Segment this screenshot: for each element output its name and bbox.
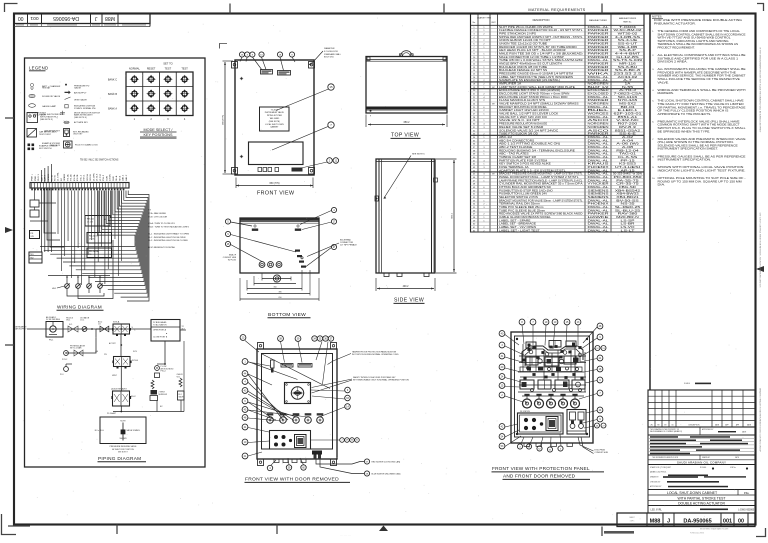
svg-text:INSTRUMENT VALVE: INSTRUMENT VALVE — [265, 111, 285, 114]
svg-text:TB-302 / MLC 302 SWITCH ACTION: TB-302 / MLC 302 SWITCH ACTIONS — [80, 159, 119, 162]
svg-text:SL-2 : INDICATING LIGHT PULSE: SL-2 : INDICATING LIGHT PULSE OPEN — [148, 236, 186, 239]
contact row switches — [65, 277, 103, 293]
svg-text:PWR -: PWR - — [35, 174, 37, 181]
svg-text:AIR SUPPLY: AIR SUPPLY — [74, 91, 87, 94]
svg-text:MODE SELECT /: MODE SELECT / — [144, 128, 174, 132]
svg-text:HS-B : TURN TO TEST INDICATION: HS-B : TURN TO TEST INDICATION LIGHTS — [148, 226, 190, 229]
svg-text:FRONT VIEW WITH PROTECTION: FRONT VIEW WITH PROTECTION PANEL — [492, 466, 590, 471]
front view datum mark — [220, 44, 228, 49]
title text rows — [648, 490, 755, 506]
protection panel caption — [492, 466, 605, 479]
wiring left components — [30, 188, 64, 247]
svg-text:DA-950065: DA-950065 — [683, 518, 711, 524]
svg-text:QUANTITY PER: QUANTITY PER — [477, 16, 492, 19]
svg-text:GHI 0-9507 CONTROL SHEET FOR R: GHI 0-9507 CONTROL SHEET FOR REVISION - … — [759, 213, 762, 289]
svg-text:001: 001 — [30, 15, 38, 21]
door removed feet — [274, 459, 306, 463]
zone tick left 2 — [5, 344, 14, 346]
side view bottom dimension — [376, 278, 435, 291]
svg-text:SHOWN WITH OPTIONAL LOCAL VALV: SHOWN WITH OPTIONAL LOCAL VALVE POSITION — [658, 166, 744, 169]
svg-text:W/ PLUG: W/ PLUG — [228, 259, 237, 261]
svg-text:FOR USE WITH PRESSURE FREE DOU: FOR USE WITH PRESSURE FREE DOUBLE ACTING — [654, 19, 742, 22]
svg-text:THE GENERAL FORM AND COMPONENT: THE GENERAL FORM AND COMPONENTS OF THE L… — [658, 30, 741, 33]
corner mark bottom-right — [756, 528, 766, 537]
svg-text:APPROPRIATE TO THE PROJECTS.: APPROPRIATE TO THE PROJECTS. — [658, 113, 712, 116]
svg-text:350: 350 — [273, 287, 276, 289]
legend key-retained entry — [44, 129, 89, 137]
material table heavy separators — [471, 82, 645, 172]
protection panel bottom balloons — [517, 435, 563, 453]
svg-text:STANDARD WALL: STANDARD WALL — [324, 53, 342, 56]
svg-text:THE LOCAL SHUTDOWN CONTROL CAB: THE LOCAL SHUTDOWN CONTROL CABINET SHALL… — [658, 100, 745, 103]
power supply box — [30, 231, 40, 239]
svg-text:LT-CLS: LT-CLS — [97, 173, 99, 181]
company banner — [648, 455, 755, 465]
bottom view drain plug — [273, 273, 280, 282]
protection panel feet — [524, 443, 573, 446]
svg-text:HS-1A: HS-1A — [66, 174, 69, 181]
svg-text:PIL: PIL — [104, 354, 107, 356]
svg-text:TEST: TEST — [181, 67, 188, 71]
svg-text:FR-1: FR-1 — [49, 340, 53, 342]
svg-text:VALVE.: VALVE. — [658, 81, 670, 84]
svg-text:MANUFACTURERS: MANUFACTURERS — [619, 17, 637, 20]
terminal labels TB-302 — [58, 171, 128, 181]
svg-text:001: 001 — [723, 518, 732, 524]
svg-text:SOLENOID VALVES SHALL BE AS PE: SOLENOID VALVES SHALL BE AS PER REFERENC… — [658, 144, 739, 147]
svg-text:CONDUIT HUB: CONDUIT HUB — [595, 452, 609, 454]
svg-text:A1: A1 — [104, 218, 106, 221]
signature rows — [648, 465, 755, 490]
left diagram box — [25, 58, 206, 467]
svg-text:LT-OPN: LT-OPN — [93, 173, 95, 181]
svg-text:JOB No.: JOB No. — [730, 467, 737, 469]
top view hinge marks — [367, 57, 446, 118]
bottom view left balloons — [225, 219, 296, 262]
svg-text:SOV-B: SOV-B — [132, 360, 139, 362]
door removed outer box — [257, 349, 337, 459]
svg-text:ALL INSTRUMENTS INCLUDING THE: ALL INSTRUMENTS INCLUDING THE CABINET SH… — [658, 68, 747, 71]
tamper proof note — [328, 351, 400, 365]
svg-text:SIDE VIEW: SIDE VIEW — [394, 298, 424, 304]
door removed left balloons — [242, 359, 248, 459]
svg-text:LT-TST: LT-TST — [100, 173, 102, 181]
svg-text:COMMON ROTATING SHAFT WITH THE: COMMON ROTATING SHAFT WITH THE MODE SELE… — [658, 124, 741, 127]
svg-text:WIRING AND TERMINALS SHALL BE: WIRING AND TERMINALS SHALL BE PROVIDED W… — [658, 89, 747, 92]
door removed left balloon leaders — [248, 362, 308, 456]
svg-text:GAUGE LAMP: GAUGE LAMP — [42, 105, 57, 108]
svg-text:PIL SHAFT: PIL SHAFT — [107, 412, 117, 415]
svg-text:24VDC: 24VDC — [110, 174, 112, 181]
legend items column 2 — [65, 84, 97, 110]
material table headers — [473, 16, 637, 24]
svg-text:PIPING DIAGRAM: PIPING DIAGRAM — [98, 456, 141, 461]
svg-text:LAN-1: LAN-1 — [122, 174, 125, 181]
svg-text:PI-3: PI-3 — [60, 374, 63, 376]
top view dimension — [366, 115, 447, 128]
door removed top balloons — [240, 335, 334, 384]
piping diagram caption — [98, 456, 147, 462]
svg-text:AT SHUTOFF POSITION: AT SHUTOFF POSITION — [112, 448, 134, 451]
terminal bar TB-302 — [30, 183, 129, 191]
svg-text:LABEL SET - LIGHT TEST: LABEL SET - LIGHT TEST — [499, 228, 540, 232]
svg-text:PSL-3: PSL-3 — [103, 174, 105, 181]
mirrored title strip — [14, 14, 150, 27]
zone tick top 1 — [229, 4, 231, 14]
svg-text:FRONT VIEW WITH DOOR REMOV: FRONT VIEW WITH DOOR REMOVED — [245, 477, 339, 483]
svg-text:SOLENOID VALVE: SOLENOID VALVE — [42, 95, 61, 98]
svg-text:ACTUATE KEY: ACTUATE KEY — [74, 121, 89, 124]
svg-text:(SEE NOTE 3): (SEE NOTE 3) — [40, 119, 53, 121]
svg-text:DA-950065: DA-950065 — [53, 15, 79, 21]
corner mark bottom-left — [2, 514, 31, 535]
zone arrow right — [756, 266, 764, 272]
svg-text:N.O.: N.O. — [69, 324, 73, 326]
svg-text:SL-1 : INDICATING LIGHT READY: SL-1 : INDICATING LIGHT READY TO OPEN — [148, 232, 189, 235]
svg-text:10.: 10. — [652, 178, 655, 180]
piping inline fittings extra — [91, 322, 109, 332]
svg-text:PSL-4: PSL-4 — [161, 371, 166, 373]
svg-text:PWR +: PWR + — [32, 173, 34, 181]
protection panel outer box — [511, 332, 593, 443]
svg-text:PLUG TO GUARD LOCK: PLUG TO GUARD LOCK — [75, 143, 98, 146]
svg-text:SET 4.1 BAR: SET 4.1 BAR — [70, 347, 82, 350]
svg-text:00: 00 — [738, 518, 744, 524]
svg-text:M88: M88 — [650, 518, 661, 524]
svg-text:650: 650 — [278, 297, 281, 299]
svg-text:TOP VIEW: TOP VIEW — [391, 133, 419, 139]
filter regulator FR-1 — [46, 316, 63, 342]
svg-text:SET TO: SET TO — [163, 62, 173, 66]
svg-text:KS-X: KS-X — [131, 396, 136, 398]
pneumatic tubing extra — [519, 344, 586, 396]
svg-text:TEST POINT: TEST POINT — [39, 134, 52, 136]
front view left dimension — [223, 61, 234, 174]
svg-text:SCALE: SCALE — [684, 382, 691, 385]
svg-text:TO ACTUATOR: TO ACTUATOR — [153, 324, 167, 327]
svg-text:OPEN PORT A: OPEN PORT A — [153, 329, 167, 332]
svg-text:CHECKED BY: CHECKED BY — [650, 481, 661, 483]
front view nameplate — [260, 107, 290, 131]
svg-text:PNEUMATIC INTERLOCK VALVE (PIL: PNEUMATIC INTERLOCK VALVE (PIL) SHALL HA… — [658, 120, 741, 123]
front view window — [249, 142, 304, 165]
svg-text:BE SPRINGED WHEN THIS TYPE.: BE SPRINGED WHEN THIS TYPE. — [658, 131, 711, 133]
control station door removed — [270, 431, 311, 450]
svg-text:A PORT: A PORT — [109, 342, 117, 345]
svg-text:800.1: 800.1 — [452, 213, 454, 219]
side view right dimension — [436, 159, 457, 273]
svg-text:DIAMETER: DIAMETER — [324, 47, 335, 50]
protection panel right balloons — [579, 323, 606, 428]
svg-text:SHOWN: SHOWN — [120, 438, 128, 440]
svg-text:TB2: TB2 — [30, 257, 34, 259]
front view bottom vents — [258, 168, 303, 172]
door removed top latch assembly — [271, 360, 313, 373]
bank row labels — [108, 79, 118, 111]
mode select caption — [140, 128, 177, 138]
corner mark top-right — [757, 3, 764, 11]
protection panel bottom-left balloons — [499, 424, 521, 449]
svg-text:SH-B: SH-B — [119, 175, 121, 181]
svg-text:DIVISION 2 AREA.: DIVISION 2 AREA. — [658, 61, 689, 64]
svg-text:SEE NOTE 7: SEE NOTE 7 — [118, 452, 128, 454]
svg-text:HS-1B: HS-1B — [71, 174, 73, 181]
side view latch — [375, 178, 438, 201]
svg-text:MUFFLER: MUFFLER — [159, 394, 168, 396]
bottom view cable glands — [259, 262, 282, 268]
right margin microfilm text — [759, 48, 762, 453]
zone tick left 1 — [5, 117, 14, 119]
svg-text:KEY REMOVEABLE ONLY IN NORMAL: KEY REMOVEABLE ONLY IN NORMAL OPERATING … — [353, 379, 409, 382]
svg-text:CV-1: CV-1 — [80, 320, 84, 322]
solenoid 4-way valve SOV-A — [96, 321, 134, 337]
svg-text:FORM 226-1 (REV): FORM 226-1 (REV) — [690, 533, 704, 535]
zone tick bottom 3 — [601, 527, 603, 537]
svg-text:OF THE FULLY CLOSED POSITION W: OF THE FULLY CLOSED POSITION WHICH IS — [658, 111, 730, 113]
svg-text:CHG 1: CHG 1 — [38, 174, 40, 181]
svg-text:BLUE SLEEVE (INCOMING LAN): BLUE SLEEVE (INCOMING LAN) — [372, 473, 401, 476]
legend title — [29, 66, 48, 71]
svg-text:BANK B: BANK B — [108, 93, 117, 96]
branch line down — [66, 329, 96, 353]
svg-text:WITH VE-777167 AND SU-36405-WX: WITH VE-777167 AND SU-36405-WXB CONTROL — [658, 37, 732, 40]
svg-text:ZSH-1: ZSH-1 — [84, 174, 86, 181]
reference rows — [648, 435, 755, 455]
svg-text:DWAL-AL: DWAL-AL — [588, 229, 610, 232]
relay box K2 — [87, 233, 112, 244]
svg-text:SOV-A: SOV-A — [113, 321, 120, 324]
protection panel right valve assembly — [567, 410, 586, 435]
svg-text:VALVE SYMBOL: VALVE SYMBOL — [127, 429, 141, 432]
svg-text:PNEUMATIC ACTUATOR.: PNEUMATIC ACTUATOR. — [654, 22, 696, 25]
svg-text:DESCRIPTION: DESCRIPTION — [533, 19, 550, 22]
svg-text:KEY POSITIONS: KEY POSITIONS — [144, 133, 173, 137]
material table rows — [471, 25, 645, 232]
zone arrow bottom center — [379, 526, 388, 532]
svg-text:SET: SET — [492, 174, 495, 176]
svg-text:LOCAL SHUT-DOWN CABINET: LOCAL SHUT-DOWN CABINET — [667, 491, 718, 495]
zone tick bottom 2 — [276, 525, 278, 535]
svg-text:NO = FULL: NO = FULL — [95, 430, 104, 432]
piping supply label — [14, 327, 27, 331]
valve HV-1 — [66, 318, 78, 333]
side view caption — [394, 298, 425, 304]
svg-text:ACT: ACT — [182, 327, 185, 330]
front view caption — [257, 191, 295, 197]
piping main supply line — [27, 328, 151, 330]
solenoid 4-way valve SOV-B — [104, 354, 138, 369]
top view handle — [400, 51, 414, 57]
wires from terminal bar right bundle — [40, 191, 149, 302]
svg-text:1/2" NPT FEMALE: 1/2" NPT FEMALE — [340, 244, 357, 247]
svg-text:TERMINALS SHALL BE INCORPORATE: TERMINALS SHALL BE INCORPORATED AS SHOWN… — [658, 43, 739, 46]
svg-text:R-55060: R-55060 — [700, 467, 706, 469]
svg-text:NOTE: NOTE — [120, 421, 126, 423]
tank connection lines — [165, 326, 186, 364]
approval row — [648, 427, 755, 435]
svg-text:1/4: 1/4 — [98, 324, 101, 326]
drawing number row — [648, 506, 755, 514]
mode select table — [126, 72, 193, 116]
svg-text:SET: SET — [492, 104, 495, 106]
gauge PI-3 — [60, 364, 72, 376]
svg-text:900 (TYP): 900 (TYP) — [223, 115, 225, 125]
front view bottom dimension — [236, 178, 313, 189]
gauges row door removed — [267, 413, 324, 423]
legend local panel icon — [27, 113, 65, 123]
pneumatic valve bodies — [518, 356, 586, 392]
svg-text:ST-B : LTR COLOUR: ST-B : LTR COLOUR — [148, 216, 168, 218]
mode column numbers — [134, 117, 186, 121]
door removed long leaders interior — [248, 354, 330, 421]
svg-text:TEST JACK: TEST JACK — [50, 144, 61, 147]
svg-text:LOCAL SHUT DOWN: LOCAL SHUT DOWN — [265, 123, 284, 126]
svg-text:SPARE: SPARE — [47, 173, 50, 181]
svg-text:CAM RETAIN KEY: CAM RETAIN KEY — [44, 129, 61, 132]
svg-text:SWITCHES, INDICATING LIGHTS AN: SWITCHES, INDICATING LIGHTS AND WIRING — [658, 40, 729, 43]
svg-text:SOV-B: SOV-B — [90, 174, 92, 181]
svg-text:FLT A: FLT A — [50, 175, 53, 181]
legend items column 1 — [29, 83, 61, 108]
svg-text:SPARE: SPARE — [63, 173, 66, 181]
svg-text:147: 147 — [277, 277, 280, 279]
protection panel corner screws — [516, 338, 588, 435]
svg-text:SYMBOL NORMAL PNL: SYMBOL NORMAL PNL — [74, 107, 97, 110]
svg-text:SOV: SOV — [133, 351, 138, 353]
svg-text:KS-2A: KS-2A — [73, 174, 76, 181]
svg-text:OR PARTIAL MOVEMENT, i.e. TRAV: OR PARTIAL MOVEMENT, i.e. TRAVEL TO PERC… — [658, 106, 747, 109]
svg-text:THE FACILITY FOR TESTING THE V: THE FACILITY FOR TESTING THE VALVE IN LI… — [658, 103, 745, 106]
svg-text:INDICATION LIGHTS AND LIGHT TE: INDICATION LIGHTS AND LIGHT TEST FIXTURE… — [658, 169, 747, 172]
conduit hub note — [578, 437, 609, 454]
balloon 7 window — [272, 122, 334, 150]
svg-text:AND FRONT DOOR REMOVED: AND FRONT DOOR REMOVED — [503, 474, 576, 479]
pneumatic small fittings — [522, 345, 583, 391]
svg-text:BOTTOM VIEW: BOTTOM VIEW — [268, 312, 306, 318]
mode knob symbols — [130, 75, 189, 113]
svg-text:650.2: 650.2 — [404, 122, 411, 124]
svg-text:(PIL) ARE SHOWN IN THE NORMAL: (PIL) ARE SHOWN IN THE NORMAL POSITION. — [658, 141, 735, 144]
check valve CV-1 — [80, 317, 90, 332]
muffler blocks — [150, 390, 168, 401]
mode table headers — [129, 62, 188, 71]
svg-text:NT:: NT: — [148, 210, 151, 212]
balloons 2 and 11 — [299, 158, 339, 169]
revision table grid — [648, 390, 755, 427]
door removed right balloons — [311, 387, 359, 442]
bottom view right balloons — [300, 207, 337, 266]
left group labels — [32, 173, 57, 181]
svg-text:RED SLEEVE (OUTGOING LAN): RED SLEEVE (OUTGOING LAN) — [372, 461, 401, 464]
svg-text:TEST: TEST — [165, 67, 172, 71]
relay box K3 — [87, 248, 112, 258]
legend plug entry — [42, 141, 98, 148]
svg-text:NOTES:: NOTES: — [652, 15, 663, 19]
svg-text:WIRING DIAGRAM: WIRING DIAGRAM — [57, 305, 102, 310]
svg-text:KEY SWITCH: KEY SWITCH — [39, 148, 52, 150]
svg-text:L1 CTRL: L1 CTRL — [58, 171, 60, 181]
wires from terminal bar left drops — [42, 164, 122, 285]
front view mounting tabs — [232, 62, 315, 175]
bottom view connector stack — [295, 250, 306, 268]
protection panel control box — [518, 410, 564, 434]
svg-text:PCV-2: PCV-2 — [62, 359, 67, 361]
svg-text:L-DWG-950065: L-DWG-950065 — [738, 510, 755, 512]
legend test-jack icon — [27, 129, 57, 138]
svg-text:HRS BAT: HRS BAT — [42, 87, 51, 90]
piping bottom manifold lines — [113, 341, 184, 412]
key switch assembly — [285, 383, 311, 404]
svg-text:ROUND UP TO 150 MM DIA. SQUARE: ROUND UP TO 150 MM DIA. SQUARE UP TO 150… — [658, 180, 742, 183]
svg-text:SOLENOID VALVES AND PNEUMATIC: SOLENOID VALVES AND PNEUMATIC INTERLOCK … — [658, 138, 747, 141]
notes paragraphs — [652, 19, 746, 186]
svg-text:INSTRUMENT SPECIFICATION SHEET: INSTRUMENT SPECIFICATION SHEET. — [658, 148, 719, 151]
title block scale note — [684, 382, 711, 385]
door removed bottom connector — [312, 451, 364, 474]
svg-text:No.: No. — [473, 22, 476, 24]
svg-text:00: 00 — [18, 15, 24, 21]
door removed bottom balloons — [267, 458, 306, 471]
tube SOV-B down — [120, 367, 122, 392]
svg-text:PROJECT REQUIREMENT.: PROJECT REQUIREMENT. — [658, 47, 696, 49]
spring symbol left — [151, 380, 154, 389]
svg-text:ST-A : FAN 240/880: ST-A : FAN 240/880 — [148, 212, 167, 215]
zone tick top 3 — [601, 4, 603, 14]
svg-text:SHEET: SHEET — [629, 517, 634, 519]
terminal block left — [29, 252, 42, 263]
svg-text:CABINET: CABINET — [270, 126, 279, 129]
tube SOV-A to SOV-B — [120, 334, 122, 356]
svg-text:BANK C: BANK C — [108, 79, 117, 82]
svg-text:COM: COM — [106, 176, 108, 181]
svg-text:NUMBER AND SERVICE. TAG NUMBER: NUMBER AND SERVICE. TAG NUMBER FOR THE C… — [658, 75, 747, 78]
svg-text:ZSL-1: ZSL-1 — [80, 174, 82, 181]
svg-text:INSTRUMENT SPECIFICATION.: INSTRUMENT SPECIFICATION. — [658, 159, 712, 162]
bottom view bolt marks — [252, 224, 301, 231]
svg-text:DIA.: DIA. — [658, 184, 666, 187]
bottom view caption — [268, 312, 311, 318]
side view note leader — [383, 154, 425, 199]
side view feet — [384, 273, 429, 277]
svg-text:2X FILTER REG: 2X FILTER REG — [46, 319, 61, 321]
material table grid — [471, 14, 645, 232]
regulator PR-2 label — [62, 345, 86, 362]
svg-text:SEE NOTE 6: SEE NOTE 6 — [412, 154, 425, 156]
pneumatic interlock valve PIL — [111, 388, 131, 407]
front view cabinet — [235, 60, 314, 175]
notes title — [652, 15, 663, 19]
svg-text:SWITCH ASSY: SWITCH ASSY — [33, 114, 47, 117]
svg-text:J: J — [94, 15, 97, 21]
svg-text:VENT VALVE: VENT VALVE — [74, 98, 87, 101]
svg-text:TAG 30885: TAG 30885 — [269, 117, 279, 120]
svg-text:AIR SUPPLY: AIR SUPPLY — [15, 328, 27, 331]
svg-text:J: J — [667, 518, 670, 524]
svg-text:▾: ▾ — [370, 115, 371, 118]
wiring right notes — [148, 210, 190, 250]
pneumatic assembly tubing upper — [518, 346, 586, 377]
svg-text:CLOSE PORT B: CLOSE PORT B — [153, 337, 168, 339]
svg-text:MANUFACTURER: MANUFACTURER — [589, 19, 607, 22]
svg-text:PRESSURE GAUGES SHALL BE AS PE: PRESSURE GAUGES SHALL BE AS PER REFERENC… — [658, 155, 747, 158]
svg-text:LT 24V: LT 24V — [87, 221, 94, 223]
svg-text:RESET: RESET — [147, 67, 156, 71]
svg-text:650 (779): 650 (779) — [270, 183, 280, 185]
safety interlock note — [312, 376, 410, 393]
spring symbol right — [177, 374, 185, 400]
title block bottom strip — [617, 513, 755, 527]
revision table header texts — [650, 423, 751, 426]
